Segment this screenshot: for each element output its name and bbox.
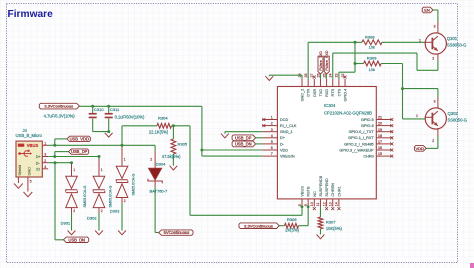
svg-text:VBUS: VBUS <box>301 186 305 197</box>
svg-text:ID: ID <box>36 168 40 172</box>
svg-text:SS8050-G: SS8050-G <box>448 118 468 123</box>
svg-text:R305: R305 <box>178 142 188 147</box>
svg-text:SUSPENDB: SUSPENDB <box>319 175 323 196</box>
svg-text:GND_1: GND_1 <box>280 130 293 134</box>
svg-text:IC304: IC304 <box>324 103 336 108</box>
svg-text:D302: D302 <box>87 216 97 221</box>
svg-text:GND: GND <box>27 167 31 176</box>
svg-text:GPIO.3_/_WAKEUP: GPIO.3_/_WAKEUP <box>339 148 374 152</box>
svg-text:DTR: DTR <box>307 89 311 97</box>
svg-text:2: 2 <box>271 122 273 126</box>
svg-text:4.7uF/6.3V(10%): 4.7uF/6.3V(10%) <box>44 113 76 118</box>
svg-text:27: 27 <box>310 74 314 78</box>
svg-text:RTS: RTS <box>331 88 335 96</box>
svg-text:DSR: DSR <box>313 89 317 97</box>
svg-text:2: 2 <box>432 139 434 143</box>
svg-text:R307: R307 <box>326 220 336 225</box>
svg-text:CTS: CTS <box>337 88 341 96</box>
svg-text:RI_/_CLK: RI_/_CLK <box>280 124 297 128</box>
svg-text:D304: D304 <box>156 162 166 167</box>
svg-text:D+: D+ <box>36 155 42 159</box>
svg-text:0.1uF/50V(10%): 0.1uF/50V(10%) <box>115 114 145 119</box>
svg-text:R308: R308 <box>365 35 375 40</box>
svg-text:VDD: VDD <box>415 146 424 151</box>
svg-text:22: 22 <box>341 74 345 78</box>
svg-text:1: 1 <box>271 116 273 120</box>
svg-text:USB_DP: USB_DP <box>71 149 88 154</box>
svg-text:21: 21 <box>378 116 382 120</box>
svg-text:CP2102N-A02-GQFN28B: CP2102N-A02-GQFN28B <box>324 110 372 115</box>
svg-text:1: 1 <box>124 158 126 162</box>
svg-text:Firmware: Firmware <box>8 9 54 20</box>
svg-text:VREGIN: VREGIN <box>280 155 295 159</box>
svg-text:SM05.0CA-G: SM05.0CA-G <box>108 185 112 207</box>
svg-text:D303: D303 <box>110 209 120 214</box>
svg-text:3.3VContinuous: 3.3VContinuous <box>44 104 73 109</box>
svg-text:USB_DN: USB_DN <box>68 237 85 242</box>
svg-text:2: 2 <box>73 209 75 213</box>
svg-text:11: 11 <box>316 202 320 206</box>
svg-text:GPIO.2_/_RS485: GPIO.2_/_RS485 <box>344 142 374 146</box>
svg-text:SM05.0CA-G: SM05.0CA-G <box>131 173 135 195</box>
svg-text:15: 15 <box>378 152 382 156</box>
svg-text:47.5k(5%): 47.5k(5%) <box>162 154 181 159</box>
svg-text:CHR0: CHR0 <box>363 155 373 159</box>
svg-text:GND_2: GND_2 <box>301 89 305 102</box>
svg-text:23: 23 <box>335 74 339 78</box>
svg-text:4: 4 <box>44 165 46 169</box>
svg-text:GPIO.0_/_TXT: GPIO.0_/_TXT <box>349 130 375 134</box>
svg-text:16: 16 <box>378 146 382 150</box>
svg-text:1: 1 <box>416 114 418 118</box>
svg-text:FWare_RXD: FWare_RXD <box>325 50 329 71</box>
svg-text:3.3VContinuous: 3.3VContinuous <box>244 223 273 228</box>
svg-text:5: 5 <box>271 140 273 144</box>
svg-text:Q301: Q301 <box>447 36 458 41</box>
svg-text:2: 2 <box>150 157 152 161</box>
svg-text:R309: R309 <box>367 56 377 61</box>
svg-text:28: 28 <box>304 74 308 78</box>
svg-text:VBUS: VBUS <box>27 143 39 148</box>
svg-text:SUSPEND: SUSPEND <box>325 178 329 197</box>
svg-text:1: 1 <box>44 142 46 146</box>
svg-text:USB_B_Micro: USB_B_Micro <box>16 133 43 138</box>
svg-text:R306: R306 <box>287 217 297 222</box>
svg-text:GPIO.5: GPIO.5 <box>361 118 374 122</box>
svg-text:GPIO.6: GPIO.6 <box>361 124 374 128</box>
svg-text:26: 26 <box>316 74 320 78</box>
svg-text:USB_DP: USB_DP <box>235 135 252 140</box>
svg-text:Q302: Q302 <box>448 111 459 116</box>
svg-text:2: 2 <box>44 159 46 163</box>
svg-text:C311: C311 <box>110 107 120 112</box>
svg-text:SM05.0CA-G: SM05.0CA-G <box>83 185 87 207</box>
svg-text:14: 14 <box>335 202 339 206</box>
svg-text:3: 3 <box>44 153 46 157</box>
svg-text:TXD: TXD <box>319 89 323 97</box>
svg-text:CHREN: CHREN <box>331 183 335 197</box>
svg-text:12: 12 <box>322 202 326 206</box>
svg-text:BAT760-7: BAT760-7 <box>150 188 168 193</box>
svg-text:C310: C310 <box>94 107 104 112</box>
svg-text:24: 24 <box>329 74 333 78</box>
svg-text:EN: EN <box>424 8 430 13</box>
svg-text:7: 7 <box>271 152 273 156</box>
svg-text:4: 4 <box>271 134 273 138</box>
svg-text:RSTB: RSTB <box>307 186 311 197</box>
svg-text:RXD: RXD <box>325 89 329 97</box>
svg-text:3: 3 <box>434 24 436 28</box>
svg-text:18: 18 <box>378 134 382 138</box>
svg-text:2K(5%): 2K(5%) <box>285 228 299 233</box>
svg-text:1: 1 <box>419 38 421 42</box>
svg-text:10: 10 <box>310 202 314 206</box>
svg-text:2: 2 <box>124 199 126 203</box>
svg-text:USB_DN: USB_DN <box>235 141 252 146</box>
svg-text:FWare_TXD: FWare_TXD <box>319 51 323 71</box>
svg-text:1: 1 <box>73 168 75 172</box>
svg-text:3: 3 <box>271 128 273 132</box>
svg-text:Shield: Shield <box>18 165 22 176</box>
svg-text:10K(5%): 10K(5%) <box>326 226 343 231</box>
svg-text:19: 19 <box>378 128 382 132</box>
svg-text:SS8050-G: SS8050-G <box>447 43 467 48</box>
svg-text:GPIO.1_/_RXT: GPIO.1_/_RXT <box>348 136 374 140</box>
svg-text:R304: R304 <box>158 115 168 120</box>
svg-text:DCD: DCD <box>280 118 288 122</box>
svg-text:3: 3 <box>434 100 436 104</box>
svg-text:10k: 10k <box>369 45 375 50</box>
svg-text:VDD: VDD <box>280 148 288 152</box>
svg-text:1: 1 <box>101 168 103 172</box>
svg-text:2: 2 <box>101 209 103 213</box>
svg-text:NC: NC <box>313 191 317 197</box>
svg-text:22.1K(5%): 22.1K(5%) <box>149 130 169 135</box>
svg-text:10k: 10k <box>369 67 375 72</box>
svg-text:6: 6 <box>271 146 273 150</box>
svg-text:D301: D301 <box>61 221 71 226</box>
svg-text:2: 2 <box>432 56 434 60</box>
svg-text:D+: D+ <box>280 136 286 140</box>
svg-text:20: 20 <box>378 122 382 126</box>
svg-text:5VContinuous: 5VContinuous <box>164 230 190 235</box>
svg-text:CHR1: CHR1 <box>337 186 341 196</box>
svg-text:GPIO.4: GPIO.4 <box>344 89 348 102</box>
svg-text:USB_VDD: USB_VDD <box>70 136 89 141</box>
svg-text:13: 13 <box>329 202 333 206</box>
svg-text:17: 17 <box>378 140 382 144</box>
svg-text:5: 5 <box>30 180 32 184</box>
